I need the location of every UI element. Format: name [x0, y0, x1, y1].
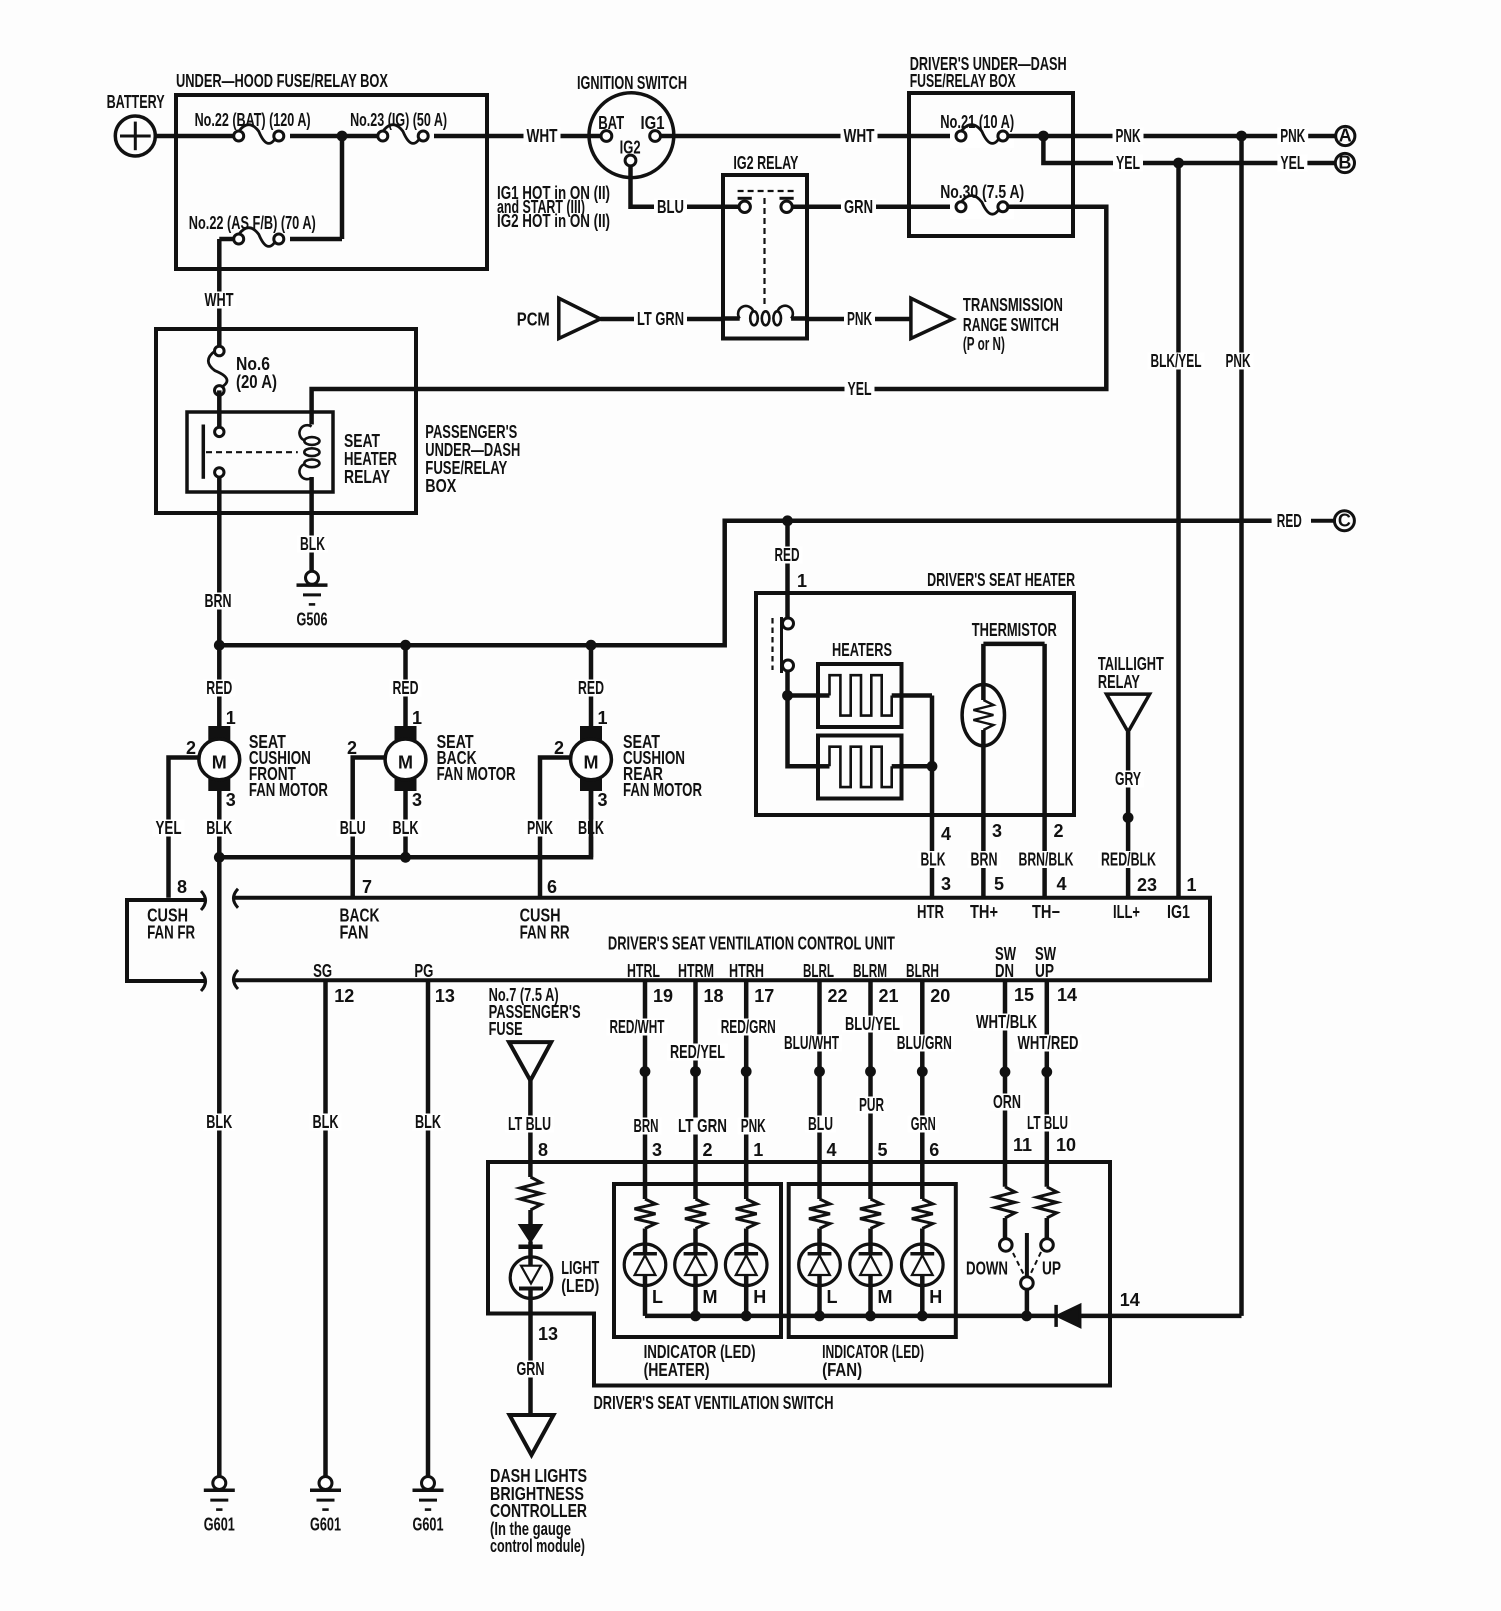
label RED/GRN: [718, 1017, 779, 1037]
indicator LED fan M: [850, 1244, 892, 1286]
svg-text:FUSE/RELAY: FUSE/RELAY: [425, 458, 507, 478]
label BLU/YEL: [842, 1014, 903, 1034]
svg-text:BLK: BLK: [300, 534, 325, 554]
svg-text:3: 3: [598, 790, 608, 810]
under-hood fuse/relay box: [176, 71, 487, 269]
svg-text:17: 17: [754, 986, 774, 1006]
svg-text:YEL: YEL: [1280, 153, 1304, 173]
node: PNK branch to vertical: [1236, 131, 1247, 142]
svg-text:M: M: [212, 752, 227, 772]
svg-text:4: 4: [827, 1140, 837, 1160]
label PNK (m3 pin2): [524, 818, 556, 838]
svg-text:DRIVER'S SEAT HEATER: DRIVER'S SEAT HEATER: [927, 570, 1075, 590]
svg-text:H: H: [929, 1287, 942, 1307]
wire LED fan H to bus: [920, 1275, 925, 1316]
svg-text:1: 1: [412, 708, 422, 728]
label pin 1 (m2): [412, 708, 422, 728]
svg-text:GRN: GRN: [844, 197, 873, 217]
node: LED bus junction: [865, 1311, 876, 1322]
wire seat cushion rear fan motor pin 1 (RED): [589, 645, 594, 726]
passenger's under-dash fuse/relay box: [156, 329, 416, 513]
fuse No.30 (7.5 A): [940, 182, 1024, 219]
svg-text:5: 5: [878, 1140, 888, 1160]
svg-text:G601: G601: [413, 1515, 444, 1535]
label pin 20: [930, 986, 950, 1006]
label M (fan): [878, 1287, 893, 1307]
wire thermistor top to TH- (BRN/BLK): [1042, 644, 1047, 898]
node: splice RED/GRN/PNK: [741, 1066, 752, 1077]
wire IG1 to driver under-dash box (WHT): [661, 134, 956, 139]
svg-text:No.21 (10 A): No.21 (10 A): [940, 112, 1014, 132]
label RED (at connector C): [1274, 511, 1305, 531]
label BLK (relay coil): [297, 534, 328, 554]
svg-text:INDICATOR (LED): INDICATOR (LED): [822, 1342, 924, 1362]
label LT BLU (fuse): [505, 1114, 554, 1134]
fuse No.22 (AS F/B) (70 A): [189, 213, 316, 251]
resistor (light): [520, 1177, 541, 1210]
wire SG to ground (BLK): [323, 980, 328, 1476]
wire BLU/YEL -> PUR (pin 21 to switch pin 5): [868, 980, 873, 1199]
svg-text:PUR: PUR: [859, 1095, 884, 1115]
svg-text:18: 18: [704, 986, 724, 1006]
label pin 2 (m1): [186, 738, 196, 758]
svg-text:UP: UP: [1035, 961, 1054, 981]
svg-text:IGNITION SWITCH: IGNITION SWITCH: [577, 73, 687, 93]
svg-text:BLK: BLK: [415, 1112, 441, 1132]
svg-text:TAILLIGHT: TAILLIGHT: [1098, 654, 1164, 674]
svg-text:YEL: YEL: [156, 818, 182, 838]
label driver's seat ventilation control unit: [608, 934, 895, 954]
label GRY: [1112, 769, 1144, 789]
svg-text:RED: RED: [578, 678, 604, 698]
svg-text:RELAY: RELAY: [1098, 672, 1140, 692]
label BLU (m2 pin2): [337, 818, 369, 838]
svg-text:A: A: [1339, 126, 1352, 146]
node: heater junction: [782, 690, 793, 701]
label WHT/BLK: [973, 1012, 1040, 1032]
label pin 2 (m2): [347, 738, 357, 758]
svg-text:No.22 (BAT) (120 A): No.22 (BAT) (120 A): [195, 110, 311, 130]
svg-text:HEATER: HEATER: [344, 449, 397, 469]
label YEL: [1113, 153, 1143, 173]
svg-text:FAN RR: FAN RR: [520, 923, 570, 943]
label WHT (to passenger box): [202, 290, 237, 310]
svg-text:UNDER—DASH: UNDER—DASH: [425, 440, 520, 460]
svg-text:YEL: YEL: [848, 379, 872, 399]
resistor (UP): [1037, 1187, 1057, 1239]
svg-text:BLRH: BLRH: [906, 961, 939, 981]
node: YEL junction to BLK/YEL vertical: [1173, 158, 1184, 169]
wire: junction down to fuse No.22 AS F/B: [284, 136, 342, 239]
svg-text:11: 11: [1013, 1135, 1032, 1155]
switch wiper DOWN/UP: [1013, 1233, 1041, 1316]
svg-text:M: M: [703, 1287, 718, 1307]
wire No.30 right, down, YEL line to seat heater relay coil: [312, 207, 1107, 425]
label pin 15: [1014, 985, 1034, 1005]
svg-text:BLU/GRN: BLU/GRN: [897, 1033, 952, 1053]
svg-text:G601: G601: [310, 1515, 341, 1535]
wire RED/WHT -> BRN (pin 19 to switch pin 3): [643, 980, 648, 1199]
wire: BLK ground bus under motors: [219, 791, 591, 857]
svg-text:IG1: IG1: [1167, 902, 1190, 922]
node: LED bus junction: [917, 1311, 928, 1322]
svg-text:No.30 (7.5 A): No.30 (7.5 A): [940, 182, 1024, 202]
taillight relay triangle: [1098, 654, 1164, 732]
indicator LED heater L: [624, 1244, 666, 1286]
svg-text:3: 3: [941, 874, 951, 894]
svg-text:1: 1: [797, 571, 807, 591]
label pin 14 (diode feed): [1120, 1290, 1140, 1310]
label BLK (PG): [412, 1112, 444, 1132]
svg-text:6: 6: [929, 1140, 939, 1160]
label pin 5 (switch): [878, 1140, 888, 1160]
svg-text:1: 1: [598, 708, 608, 728]
node: splice WHT/BLK-ORN: [1000, 1067, 1011, 1078]
label PNK (coil out): [844, 309, 875, 329]
svg-text:TH+: TH+: [970, 902, 998, 922]
ignition switch: [577, 73, 687, 178]
label pin 3 (m2): [412, 790, 422, 810]
label YEL (m1 pin2): [153, 818, 185, 838]
label pin 4 (TH-): [1057, 874, 1067, 894]
node: heater output junction: [927, 761, 938, 772]
svg-text:BLK: BLK: [313, 1112, 339, 1132]
svg-text:22: 22: [828, 986, 848, 1006]
svg-text:BLU: BLU: [808, 1114, 833, 1134]
label RED (m1): [203, 678, 235, 698]
label pin 3 (HTR): [941, 874, 951, 894]
label GRN (light out): [514, 1359, 548, 1379]
svg-text:1: 1: [1187, 875, 1197, 895]
svg-text:RED: RED: [206, 678, 232, 698]
label pin 3 (m1): [226, 790, 236, 810]
seat heater thermal switch: [773, 617, 794, 673]
svg-text:BLU/YEL: BLU/YEL: [845, 1014, 900, 1034]
svg-text:PNK: PNK: [527, 818, 553, 838]
svg-text:UNDER—HOOD FUSE/RELAY BOX: UNDER—HOOD FUSE/RELAY BOX: [176, 71, 388, 91]
svg-text:FAN MOTOR: FAN MOTOR: [249, 780, 328, 800]
node: splice RED/WHT/BRN: [640, 1066, 651, 1077]
wire seat cushion rear fan motor pin 2 (PNK): [540, 758, 571, 898]
svg-text:BLU: BLU: [340, 818, 366, 838]
transmission range switch triangle: [911, 295, 1063, 354]
label BRN: [202, 591, 235, 611]
svg-text:BRN/BLK: BRN/BLK: [1019, 850, 1074, 870]
label pin 22: [828, 986, 848, 1006]
label UP: [1042, 1259, 1061, 1279]
resistor (heater M): [685, 1199, 706, 1254]
svg-text:BLRM: BLRM: [853, 961, 887, 981]
label BLK (motor ground spine): [203, 1112, 235, 1132]
ground G601 (PG): [413, 1477, 444, 1535]
label pin 12: [334, 986, 354, 1006]
label seat cushion rear fan motor: [623, 732, 702, 800]
resistor (fan L): [809, 1199, 830, 1254]
svg-text:13: 13: [435, 986, 455, 1006]
svg-text:14: 14: [1120, 1290, 1140, 1310]
label PNK (at connector A): [1277, 126, 1308, 146]
label BRN (thermistor): [968, 850, 1001, 870]
node: junction to seat heater (RED): [782, 515, 793, 526]
svg-text:GRN: GRN: [911, 1114, 936, 1134]
fuse No.7 (7.5 A) passenger's fuse triangle: [489, 985, 581, 1081]
label pin 23 (ILL+): [1137, 875, 1157, 895]
svg-text:BATTERY: BATTERY: [107, 92, 165, 112]
label BLU/WHT: [781, 1033, 842, 1053]
wire No.21 junction down, right to connector B (YEL): [1043, 136, 1336, 163]
svg-text:PASSENGER'S: PASSENGER'S: [425, 422, 517, 442]
svg-text:G601: G601: [204, 1515, 235, 1535]
svg-text:3: 3: [412, 790, 422, 810]
node: GRY to RED/BLK splice: [1123, 812, 1134, 823]
label pin 4 (switch): [827, 1140, 837, 1160]
svg-text:control module): control module): [490, 1536, 585, 1556]
node: junction after fuse No.22: [337, 131, 348, 142]
svg-text:WHT: WHT: [844, 126, 875, 146]
label H (fan): [929, 1287, 942, 1307]
wire seat cushion front fan motor pin 3 (BLK): [217, 791, 222, 857]
label RED (m3): [575, 678, 607, 698]
svg-text:No.22 (AS F/B) (70 A): No.22 (AS F/B) (70 A): [189, 213, 316, 233]
label LT GRN: [675, 1116, 730, 1136]
node: splice WHT/RED-LT BLU: [1041, 1067, 1052, 1078]
label pin 3 (thermistor): [992, 821, 1002, 841]
label ORN: [990, 1092, 1024, 1112]
seat cushion rear fan motor: [571, 726, 612, 791]
svg-text:FUSE: FUSE: [489, 1019, 523, 1039]
fuse No.21 (10 A): [940, 112, 1014, 148]
indicator LED heater H: [725, 1244, 767, 1286]
label pin 1 (switch): [753, 1140, 763, 1160]
svg-text:2: 2: [554, 738, 564, 758]
pin name labels in control unit: [313, 902, 1190, 981]
node: bus junction at BRN: [214, 640, 225, 651]
svg-text:TRANSMISSION: TRANSMISSION: [963, 295, 1063, 315]
svg-text:(P or N): (P or N): [963, 334, 1005, 354]
wire LED heater H to bus: [744, 1275, 749, 1316]
svg-text:GRN: GRN: [517, 1359, 545, 1379]
label pin 1 (m3): [598, 708, 608, 728]
wire RED/GRN -> PNK (pin 17 to switch pin 1): [744, 980, 749, 1199]
label L (heater): [652, 1287, 663, 1307]
label HEATERS: [832, 640, 892, 660]
svg-text:FAN: FAN: [340, 923, 369, 943]
svg-text:BLK: BLK: [921, 850, 946, 870]
label pin 1 (m1): [226, 708, 236, 728]
wire seat cushion front fan motor pin 2 (YEL): [169, 758, 199, 898]
wire: fuse AS F/B left, down to No.6 (WHT): [219, 239, 233, 347]
svg-text:PCM: PCM: [517, 310, 550, 330]
light (LED): [510, 1241, 599, 1298]
svg-text:DRIVER'S SEAT VENTILATION CONT: DRIVER'S SEAT VENTILATION CONTROL UNIT: [608, 934, 895, 954]
svg-text:DN: DN: [995, 961, 1014, 981]
node: LED bus junction: [741, 1311, 752, 1322]
label pin 13 (light): [538, 1324, 558, 1344]
svg-text:GRY: GRY: [1115, 769, 1141, 789]
label seat back fan motor: [437, 732, 516, 784]
svg-text:4: 4: [1057, 874, 1067, 894]
label pin 13: [435, 986, 455, 1006]
svg-text:5: 5: [994, 874, 1004, 894]
label BLU/GRN: [894, 1033, 955, 1053]
label LT GRN: [634, 309, 687, 329]
svg-text:M: M: [878, 1287, 893, 1307]
ground G506: [297, 571, 328, 629]
node: BLK bus at motor 1: [214, 852, 225, 863]
node: LED bus junction: [690, 1311, 701, 1322]
label pin 21: [879, 986, 899, 1006]
svg-text:LT GRN: LT GRN: [678, 1116, 727, 1136]
wire: RED feed bus to fan motors and seat heater: [219, 521, 1271, 645]
label pin 7: [362, 877, 372, 897]
svg-text:ORN: ORN: [993, 1092, 1021, 1112]
svg-text:1: 1: [753, 1140, 763, 1160]
svg-text:2: 2: [1054, 821, 1064, 841]
label RED/WHT: [607, 1017, 668, 1037]
label BLU: [654, 197, 687, 217]
svg-text:FUSE/RELAY BOX: FUSE/RELAY BOX: [910, 71, 1016, 91]
diode (switch feed, filled): [1056, 1305, 1080, 1327]
label pin 17: [754, 986, 774, 1006]
label BLK (m3 pin3): [575, 818, 607, 838]
svg-text:PNK: PNK: [1226, 351, 1251, 371]
label YEL (relay coil feed): [845, 379, 875, 399]
wire: BLK spine down to ground G601: [217, 857, 222, 1476]
label M (heater): [703, 1287, 718, 1307]
svg-text:RED/GRN: RED/GRN: [721, 1017, 776, 1037]
svg-text:2: 2: [186, 738, 196, 758]
svg-text:H: H: [753, 1287, 766, 1307]
label pin 6: [547, 877, 557, 897]
svg-text:3: 3: [652, 1140, 662, 1160]
resistor (fan M): [860, 1199, 881, 1254]
label pin 6 (switch): [929, 1140, 939, 1160]
svg-text:RED: RED: [1277, 511, 1302, 531]
label BLK (m1 pin3): [203, 818, 235, 838]
svg-text:HTRL: HTRL: [627, 961, 660, 981]
wire LED fan L to bus: [817, 1275, 822, 1316]
wire BLK/YEL vertical (to control unit IG1): [1176, 163, 1181, 898]
svg-text:BRN: BRN: [634, 1116, 659, 1136]
svg-text:RELAY: RELAY: [344, 467, 390, 487]
svg-text:BLK: BLK: [206, 1112, 232, 1132]
label BRN: [631, 1116, 662, 1136]
svg-text:BLU/WHT: BLU/WHT: [784, 1033, 839, 1053]
svg-text:8: 8: [538, 1140, 548, 1160]
label WHT (IG1 feed): [841, 126, 878, 146]
label GRN: [908, 1114, 939, 1134]
wire No.21 to connector A (PNK): [1008, 134, 1336, 139]
terminal UP: [1041, 1239, 1054, 1252]
resistor (heater H): [736, 1199, 757, 1254]
battery: [107, 92, 165, 156]
PCM triangle: [517, 298, 601, 338]
diode (light, filled): [519, 1210, 543, 1247]
wire PG to ground (BLK): [426, 980, 431, 1476]
svg-text:BAT: BAT: [598, 113, 624, 133]
svg-text:3: 3: [226, 790, 236, 810]
seat heater relay box: [187, 412, 333, 492]
svg-text:WHT/RED: WHT/RED: [1018, 1033, 1079, 1053]
svg-text:WHT: WHT: [527, 126, 558, 146]
wire SW DN (WHT/BLK -> ORN): [1003, 980, 1008, 1187]
node: PNK junction: [1038, 131, 1049, 142]
label seat heater relay: [344, 431, 397, 487]
label dash lights brightness controller: [490, 1466, 587, 1556]
label pin 8: [177, 877, 187, 897]
svg-text:LT GRN: LT GRN: [637, 309, 684, 329]
svg-text:UP: UP: [1042, 1259, 1061, 1279]
resistor (DOWN): [995, 1187, 1015, 1239]
svg-text:2: 2: [703, 1140, 713, 1160]
wire PCM to IG2 relay coil (LT GRN): [600, 317, 723, 322]
svg-text:RED/BLK: RED/BLK: [1101, 850, 1156, 870]
wire relay coil to ground G506 (BLK): [309, 477, 314, 573]
svg-text:M: M: [398, 752, 413, 772]
thermistor: [962, 620, 1057, 746]
svg-text:INDICATOR (LED): INDICATOR (LED): [644, 1342, 756, 1362]
svg-text:WHT/BLK: WHT/BLK: [976, 1012, 1037, 1032]
wire PNK vertical (to switch diode): [1239, 136, 1244, 1316]
svg-text:(FAN): (FAN): [822, 1360, 862, 1380]
label passenger's box: [425, 422, 520, 496]
wire BLU/WHT -> BLU (pin 22 to switch pin 4): [817, 980, 822, 1199]
seat cushion front fan motor: [199, 726, 240, 791]
indicator LED fan H: [902, 1244, 944, 1286]
dash lights brightness controller triangle: [510, 1415, 554, 1455]
ground G601 (motor spine): [204, 1477, 235, 1535]
svg-text:HTRM: HTRM: [678, 961, 714, 981]
svg-text:IG2 HOT in ON (II): IG2 HOT in ON (II): [497, 211, 610, 231]
svg-text:ILL+: ILL+: [1113, 902, 1140, 922]
label BLK (m2 pin3): [390, 818, 422, 838]
wire IG2 down and right (BLU): [631, 166, 740, 207]
svg-text:BRN: BRN: [971, 850, 998, 870]
svg-text:IG1: IG1: [641, 113, 665, 133]
svg-text:LT BLU: LT BLU: [1027, 1113, 1068, 1133]
svg-text:3: 3: [992, 821, 1002, 841]
node: splice BLU/WHT/BLU: [814, 1066, 825, 1077]
label pin 14: [1057, 985, 1077, 1005]
wire coil to transmission range switch (PNK): [807, 317, 911, 322]
svg-text:7: 7: [362, 877, 372, 897]
svg-text:BOX: BOX: [425, 476, 456, 496]
driver's seat heater box: [756, 570, 1075, 815]
driver's under-dash fuse/relay box: [909, 54, 1073, 236]
svg-text:BLK: BLK: [393, 818, 419, 838]
label pin 19: [653, 986, 673, 1006]
wire heater outputs to HTR pin (BLK): [902, 696, 933, 898]
svg-text:HTR: HTR: [917, 902, 944, 922]
svg-text:19: 19: [653, 986, 673, 1006]
wire IG2 relay contact to fuse No.30 (GRN): [792, 205, 955, 210]
control unit left box (CUSH FAN FR): [127, 891, 206, 991]
svg-text:PNK: PNK: [1280, 126, 1305, 146]
label BRN/BLK: [1016, 850, 1077, 870]
label pin 2 (m3): [554, 738, 564, 758]
svg-text:DOWN: DOWN: [966, 1259, 1008, 1279]
svg-text:RED: RED: [393, 678, 419, 698]
svg-text:IG2: IG2: [620, 138, 641, 158]
svg-text:BLK: BLK: [206, 818, 232, 838]
svg-text:LIGHT: LIGHT: [561, 1258, 599, 1278]
svg-text:TH−: TH−: [1032, 902, 1060, 922]
node: LED bus junction: [814, 1311, 825, 1322]
svg-text:No.23 (IG) (50 A): No.23 (IG) (50 A): [350, 110, 447, 130]
svg-text:B: B: [1338, 153, 1351, 173]
node: bus junction motor 3: [586, 640, 597, 651]
svg-text:13: 13: [538, 1324, 558, 1344]
